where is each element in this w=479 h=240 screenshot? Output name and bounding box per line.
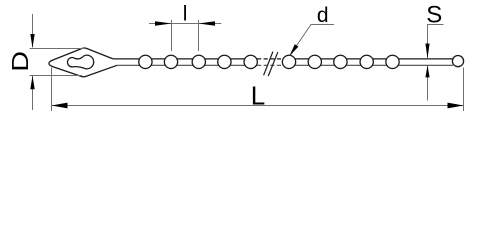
svg-text:d: d [317, 4, 329, 27]
svg-text:D: D [7, 51, 34, 72]
dimension S bottom arrow line [427, 66, 429, 101]
dimension D extension lines [30, 49, 85, 76]
dimension S top arrow line [427, 25, 429, 59]
dimension l dim line [149, 23, 221, 25]
svg-text:S: S [426, 1, 442, 28]
dimension L extension line left [51, 68, 53, 112]
leader d arrowhead [289, 44, 298, 56]
head outline [49, 48, 117, 77]
keyhole slot in head [67, 55, 93, 69]
bead 4 [218, 55, 231, 68]
dimension S top arrowhead [425, 44, 429, 59]
strap bottom line [117, 64, 453, 66]
dimension D arrow lines [32, 14, 34, 110]
bead 3 [192, 55, 205, 68]
dimension D arrowhead top [30, 34, 34, 48]
dimension S bottom arrowhead [425, 65, 429, 77]
bead 2 [164, 55, 177, 68]
end bead [452, 56, 463, 67]
bead 9 [360, 55, 373, 68]
bead 10 [386, 55, 399, 68]
svg-text:l: l [183, 2, 188, 25]
leader d line [290, 25, 334, 56]
dimension S leader landing [428, 25, 444, 48]
dimension L extension line right [463, 68, 465, 112]
dimension l right arrowhead [199, 21, 216, 26]
strap top line [113, 58, 454, 60]
dimension l extension lines [172, 20, 199, 51]
dimension L right arrowhead [448, 103, 464, 109]
bead 6 [282, 55, 295, 68]
dimension D arrowhead bottom [30, 76, 34, 90]
dimension l left arrowhead [155, 21, 172, 26]
dimension L dim line [52, 105, 464, 107]
bead 1 [139, 55, 152, 68]
bead 5 [244, 55, 257, 68]
break symbol slashes [264, 52, 278, 77]
bead 8 [334, 55, 347, 68]
dimension L left arrowhead [52, 103, 68, 109]
bead 7 [308, 55, 321, 68]
svg-text:L: L [251, 81, 265, 111]
